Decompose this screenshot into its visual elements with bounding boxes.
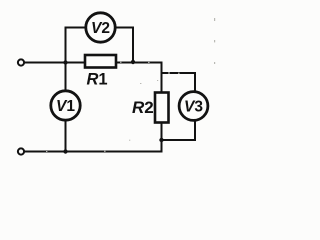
- wire link V3 bottom: [162, 122, 196, 141]
- svg-text:V1: V1: [56, 98, 75, 115]
- terminal T1 (upper input): [18, 59, 24, 65]
- svg-text:V2: V2: [91, 20, 110, 37]
- voltmeter V1: [51, 91, 80, 120]
- wire V2 left branch: [66, 28, 85, 63]
- wire V1 top lead: [65, 63, 67, 91]
- voltmeter V3: [179, 92, 208, 121]
- wire V2 right branch: [117, 28, 134, 62]
- node junction V2 right on main wire: [131, 60, 135, 64]
- wire bottom conductor: [25, 151, 163, 153]
- wire from R1 right to corner and down: [117, 63, 162, 74]
- node junction V1 bottom: [63, 149, 67, 153]
- svg-text:R2: R2: [132, 98, 154, 117]
- node junction V1/V2 top: [63, 60, 67, 64]
- wire R2 bottom to bottom conductor: [161, 123, 163, 152]
- wire top conductor from T1 to R1: [25, 62, 85, 64]
- node junction R2/V3 bottom: [159, 138, 163, 142]
- scan speckle texture (faint): [46, 18, 215, 152]
- wire V1 bottom lead: [65, 121, 67, 152]
- resistor R1: [85, 55, 116, 68]
- voltmeter V2: [86, 13, 115, 42]
- svg-text:R1: R1: [87, 71, 108, 89]
- terminal T2 (lower input): [18, 148, 24, 154]
- svg-text:V3: V3: [184, 99, 203, 116]
- resistor R2: [155, 93, 169, 123]
- wire branch down to R2 top: [161, 72, 163, 93]
- wire branch to V3 top: [162, 73, 196, 91]
